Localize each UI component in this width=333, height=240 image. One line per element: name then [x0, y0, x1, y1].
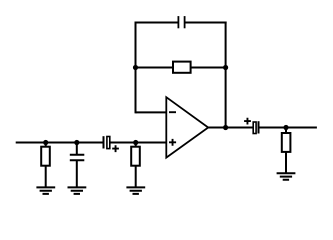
ground G2 [68, 187, 87, 194]
op-amp U1 non-inverting input plus label [169, 139, 176, 146]
wire R1 to ground [45, 166, 47, 188]
capacitor C1 plus label [112, 145, 119, 152]
wire feedback resistor right lead [191, 67, 226, 69]
ground G3 [126, 187, 145, 194]
wire C2 to ground [76, 160, 78, 187]
wire R2 to ground [135, 166, 137, 188]
node input junction A [43, 140, 48, 145]
resistor R1 stub wire top [45, 143, 47, 147]
wire inverting input horizontal [136, 111, 167, 113]
capacitor C2 shunt [70, 155, 85, 161]
wire C2 stub from rail [76, 143, 78, 155]
capacitor C4 negative plate [258, 121, 260, 133]
resistor R3 feedback [173, 62, 191, 73]
ground G1 [36, 187, 55, 194]
op-amp U1 inverting input minus label [169, 111, 176, 113]
capacitor C1 polarized series input: negative plate [103, 136, 105, 148]
wire input rail right segment to op-amp non-inverting input [111, 142, 167, 144]
wire feedback top right horizontal [186, 22, 227, 24]
wire feedback left vertical [135, 22, 137, 114]
resistor R4 stub wire top [285, 128, 287, 134]
node output junction [223, 125, 228, 130]
resistor R2 stub wire top [135, 143, 137, 147]
wire R4 to ground [285, 152, 287, 173]
ground G4 [277, 173, 296, 180]
resistor R4 [282, 133, 291, 152]
node feedback left junction [133, 65, 138, 70]
wire output rail right segment [260, 127, 317, 129]
capacitor C1 positive plate box [107, 137, 110, 149]
wire feedback resistor left lead [136, 67, 174, 69]
resistor R2 [131, 147, 140, 166]
resistor R1 [41, 147, 50, 166]
wire op-amp output [208, 127, 252, 129]
capacitor C3 feedback left plate [177, 16, 179, 28]
node feedback right junction [223, 65, 228, 70]
wire feedback right vertical [225, 22, 227, 128]
capacitor C4 positive plate box [253, 122, 256, 134]
node input junction C [133, 140, 138, 145]
node input junction B [74, 140, 79, 145]
node output junction D [283, 125, 288, 130]
wire input rail left segment [16, 142, 103, 144]
op-amp U1 [166, 97, 208, 157]
capacitor C4 plus label [244, 118, 251, 125]
wire feedback top left horizontal [135, 22, 178, 24]
capacitor C3 feedback right plate [184, 16, 186, 28]
